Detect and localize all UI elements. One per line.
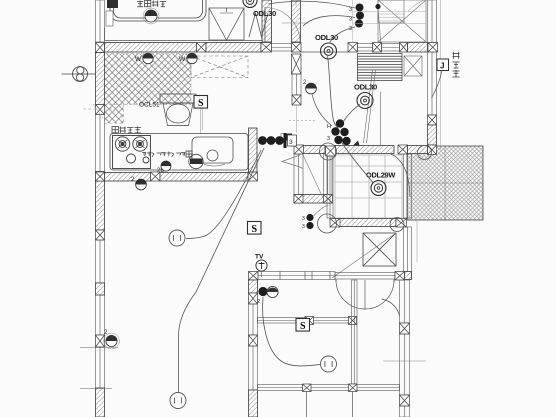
mid wall seg C: [405, 272, 412, 280]
top wall seg C: [408, 43, 428, 53]
tatami bottom post R: [396, 219, 407, 228]
wire hall sw to DL1: [330, 27, 356, 43]
right wall post: [428, 115, 437, 125]
dashed tick: [289, 120, 317, 122]
kitchen wall post M: [151, 172, 161, 181]
outlet W right: [187, 53, 197, 63]
bath outlet ring: [143, 8, 159, 24]
svg-text:3: 3: [327, 136, 330, 142]
outlet W left: [143, 53, 153, 63]
stove: [113, 136, 151, 169]
svg-text:3: 3: [349, 26, 352, 32]
svg-text:W: W: [135, 56, 142, 63]
washroom wall seg: [292, 74, 301, 95]
svg-text:OCL51: OCL51: [139, 102, 160, 109]
left wall post5: [96, 335, 105, 347]
mid-left wall window2: [249, 346, 258, 390]
top wall post B: [261, 43, 272, 53]
top wall post D: [348, 43, 358, 53]
entry hatch tongue: [105, 104, 124, 124]
washbasin vanity: [160, 94, 196, 126]
wall right of closet: [404, 227, 412, 277]
hall lower wall seg2: [334, 146, 394, 154]
svg-text:3: 3: [302, 216, 305, 222]
bath divider wall: [262, 0, 272, 42]
washroom S wire: [201, 109, 203, 134]
partition post R: [349, 317, 357, 325]
wire kitchen sw to CL2: [179, 148, 265, 392]
washroom wall post2: [292, 95, 301, 105]
ceiling light bottom-mid: [321, 356, 337, 372]
wc left wall: [294, 154, 303, 195]
round column tatami bl: [318, 214, 337, 233]
wc bottom post L: [294, 195, 303, 204]
br door arc: [382, 299, 400, 316]
kitchen wall stub: [249, 128, 258, 172]
kitchen wall seg A: [105, 173, 151, 182]
lower partition post2: [349, 384, 358, 392]
cross-hatched entry floor area: [96, 54, 191, 105]
round column tatami br: [390, 218, 404, 232]
mid-left wall hatch1: [249, 280, 258, 293]
closet door diagonal: [332, 233, 396, 278]
hall floor edge: [301, 51, 348, 53]
switch cluster stair-hall: [336, 119, 344, 127]
ceiling light LDK: [169, 230, 185, 246]
left wall post: [96, 43, 105, 53]
bath outlet: [145, 10, 157, 22]
stair rail lines: [364, 70, 376, 143]
leader arrow: [282, 155, 303, 169]
downlight ODL29W tatami: [371, 181, 386, 196]
left wall post4: [96, 230, 105, 240]
mid-left wall hatch2: [249, 390, 258, 417]
top wall seg B: [206, 43, 261, 53]
top wall post F: [428, 43, 438, 53]
hall lower wall post2: [398, 145, 408, 154]
mid-left wall window1: [249, 304, 258, 335]
closet box with X: [363, 233, 396, 266]
left wall post2: [96, 105, 105, 115]
switch bottom-mid room: [258, 287, 267, 296]
kitchen counter outline: [110, 134, 248, 171]
braced panel stairs-side: [404, 56, 422, 76]
wc right wall: [324, 154, 333, 195]
left wall window seg4: [96, 347, 105, 388]
top wall post C: [292, 43, 302, 53]
top wall seg A: [105, 43, 197, 53]
downlight ODL30 top (clipped): [243, 0, 257, 8]
bathtub: [110, 0, 206, 21]
stair direction line: [380, 92, 382, 146]
svg-text:TV: TV: [255, 254, 264, 261]
mid wall post R: [395, 272, 405, 281]
washroom wall window: [292, 54, 302, 74]
kitchen wall seg B: [160, 173, 248, 182]
svg-text:S: S: [198, 98, 204, 109]
outlet hall wall: [306, 83, 317, 94]
svg-text:3: 3: [289, 139, 293, 146]
below stub1: [306, 391, 308, 417]
right wall seg2: [428, 125, 437, 145]
bath door hinge block: [107, 0, 118, 8]
tatami mat lines: [335, 155, 402, 218]
downlight ODL30 hall lower: [357, 93, 373, 109]
double door arcs: [336, 279, 394, 310]
washroom door arc: [265, 8, 300, 43]
exhaust fan symbol: [62, 67, 97, 82]
svg-text:W: W: [179, 56, 186, 63]
wire hall sw to bath: [268, 1, 355, 8]
kitchen counter outlet: [189, 154, 203, 168]
svg-text:S: S: [251, 224, 257, 235]
top wall post E: [373, 43, 382, 53]
ceiling light bottom-left: [170, 393, 186, 409]
label キッチンカウンター用: [142, 153, 146, 157]
S box LDK: [248, 222, 262, 236]
wc door diagonal: [303, 155, 324, 200]
svg-text:ODL30: ODL30: [354, 83, 377, 92]
right wall post2: [428, 145, 437, 155]
svg-text:S: S: [300, 321, 306, 332]
shower pan with V: [209, 8, 244, 40]
washroom door leaf: [264, 7, 266, 42]
br wall tick: [383, 360, 426, 362]
junction dot: [375, 4, 380, 9]
right outer eave line: [440, 0, 442, 150]
br wall post1: [400, 323, 410, 334]
hall lower wall seg3: [408, 146, 428, 154]
top wall post A: [197, 43, 207, 53]
right wall seg1: [428, 52, 437, 115]
svg-text:ODL30: ODL30: [315, 33, 338, 42]
top wall door sill: [272, 44, 292, 52]
left wall hatch seg4: [96, 283, 105, 295]
J wire: [432, 71, 443, 99]
partition post: [305, 317, 314, 325]
staircase treads: [358, 54, 403, 81]
wood deck hatched area: [407, 146, 483, 220]
kitchen sink: [192, 137, 233, 166]
left wall tick y347: [80, 347, 118, 349]
left wall window seg2: [96, 240, 105, 283]
folding door zigzag: [249, 13, 268, 37]
outlet ldk left: [136, 179, 147, 190]
wire junction down: [378, 9, 381, 42]
S box bottom room: [296, 319, 310, 333]
partition wall: [258, 318, 355, 324]
balcony rail lines: [353, 0, 427, 42]
outlet bl wall: [106, 335, 117, 346]
left wall post3: [96, 172, 105, 182]
mid wall door sill: [335, 273, 395, 280]
wire stair sw to DL2: [343, 105, 360, 123]
lower partition post1: [303, 384, 312, 392]
wire stair sw to tatami light: [342, 143, 373, 183]
right wall top: [428, 0, 437, 43]
S box washroom: [194, 96, 208, 110]
svg-text:3: 3: [349, 17, 352, 23]
small label box: [284, 134, 292, 141]
left wall window seg3: [96, 295, 105, 335]
mid wall divider ticks: [280, 272, 330, 280]
left wall window seg: [96, 115, 105, 172]
svg-text:2: 2: [257, 299, 260, 305]
left wall hatched seg2: [96, 53, 105, 105]
hall nook lines: [282, 0, 308, 23]
wc bottom post R: [324, 195, 333, 204]
tatami left wall: [327, 156, 333, 218]
mid wall post L: [249, 272, 259, 281]
bath niche: [106, 11, 113, 26]
top wall post E2: [400, 43, 408, 53]
svg-text:ODL29W: ODL29W: [366, 171, 395, 180]
lower partition: [258, 385, 400, 391]
tatami left wall post: [326, 146, 336, 156]
round column wc top: [320, 143, 337, 160]
hall lower wall post: [294, 145, 304, 154]
left wall hatched bottom: [96, 388, 105, 417]
br wall seg2: [400, 334, 410, 395]
J box exterior light: [437, 59, 449, 71]
svg-text:J: J: [440, 62, 444, 71]
kitchen wall stub post: [248, 172, 258, 181]
door arrow mark: [353, 141, 360, 146]
wire wc sw: [314, 205, 329, 216]
hall lower wall: [301, 146, 325, 154]
washroom wall faint line: [296, 105, 298, 133]
left wall tick y388: [80, 388, 112, 390]
partition wall v: [352, 280, 358, 384]
svg-text:3: 3: [349, 7, 352, 13]
label 手摺電源: [137, 1, 143, 7]
tatami door arc: [391, 154, 410, 197]
wc bottom wall: [294, 195, 332, 204]
wire outlet to switches: [312, 94, 332, 126]
label 外灯用: [453, 52, 460, 59]
top wall stair window2: [382, 44, 400, 52]
washroom wall top: [292, 0, 301, 42]
svg-text:ODL30: ODL30: [253, 9, 276, 18]
tatami bottom wall: [332, 219, 396, 227]
round column deck tl: [418, 146, 432, 160]
outlet bl ring: [104, 333, 120, 349]
wire hall sw mid: [303, 16, 355, 26]
tatami bottom post L: [330, 219, 340, 228]
switch pair wc: [306, 214, 313, 221]
tatami right wall: [404, 154, 412, 218]
eave line below deck: [416, 220, 418, 262]
bath floor line: [105, 28, 263, 41]
downlight ODL30 hall upper: [321, 43, 337, 59]
left wall top window: [96, 0, 105, 42]
dashed ceiling-opening box with X: [191, 56, 248, 78]
wire DL1 to stair switches: [328, 55, 339, 128]
wire sw to CL3: [263, 297, 320, 366]
mid wall seg A: [258, 272, 335, 280]
top wall stair window: [358, 44, 373, 52]
left wall hatched seg3: [96, 181, 105, 230]
kitchen wall post L: [96, 172, 105, 181]
braced panel top-right: [378, 0, 426, 42]
label 換気扇用: [112, 127, 118, 133]
switch cluster kitchen-3: [258, 136, 267, 145]
mid-left wall post0: [249, 293, 258, 304]
below stub2: [352, 391, 354, 417]
wire kitchen sw to CL1: [186, 150, 261, 239]
mid-left wall post: [249, 335, 258, 346]
br wall seg1: [400, 280, 410, 323]
svg-text:3: 3: [302, 224, 305, 230]
br wall seg3: [400, 406, 410, 417]
fan duct dashes: [83, 104, 116, 118]
br wall post2: [400, 395, 410, 406]
switch cluster hall top: [356, 4, 364, 12]
